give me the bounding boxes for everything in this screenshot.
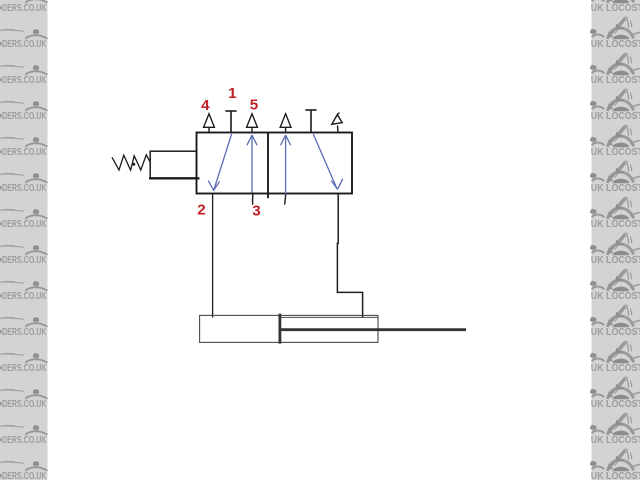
port 4 exhaust triangle xyxy=(204,114,215,133)
watermark left strip xyxy=(0,0,48,480)
right box plug symbol xyxy=(305,110,316,133)
svg-text:5: 5 xyxy=(250,97,259,114)
svg-text:3: 3 xyxy=(252,202,260,219)
port 1 plug symbol xyxy=(225,111,236,133)
piston xyxy=(278,314,281,344)
right box tilted exhaust triangle xyxy=(332,113,342,133)
svg-text:4: 4 xyxy=(201,97,210,114)
flow arrow 1-2 (diagonal, left box) xyxy=(208,134,231,191)
port 3 exhaust stub xyxy=(251,194,254,205)
watermark right strip xyxy=(590,0,640,480)
flow arrow diagonal (right box) xyxy=(313,134,343,189)
right section exhaust stub xyxy=(285,194,286,205)
piston rod xyxy=(281,328,466,331)
wire port2 to cylinder xyxy=(212,194,214,317)
valve V1 body (5/2 valve, two position boxes) xyxy=(197,133,353,199)
pilot actuator box xyxy=(149,151,200,178)
svg-text:2: 2 xyxy=(197,202,205,219)
return spring xyxy=(112,155,151,170)
svg-text:1: 1 xyxy=(228,85,237,102)
cylinder barrel xyxy=(200,315,378,342)
flow arrow 3-up (vertical, left box) xyxy=(247,135,257,193)
wire right port to cylinder xyxy=(337,194,362,318)
port 5 exhaust triangle xyxy=(247,114,258,133)
right box exhaust triangle xyxy=(280,114,291,133)
cylinder inner top line xyxy=(281,316,378,318)
flow arrow up (vertical, right box) xyxy=(281,135,291,195)
